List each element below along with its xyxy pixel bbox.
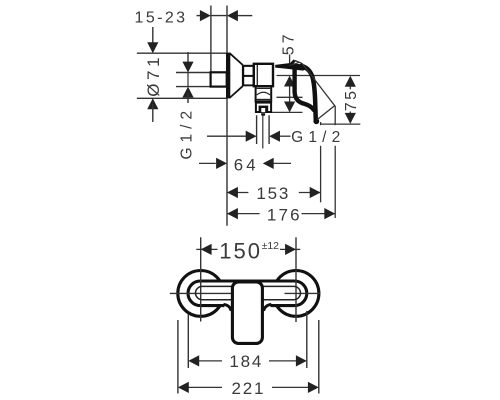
svg-text:150: 150	[219, 238, 262, 263]
outlet centerline	[262, 115, 264, 148]
arrowhead down G1/2 left	[182, 62, 193, 73]
extension line outlet level	[272, 111, 303, 113]
extension line bottom of escutcheon	[137, 97, 227, 99]
svg-text:75: 75	[343, 89, 360, 112]
arrowhead left 221	[178, 382, 189, 393]
svg-text:64: 64	[234, 155, 259, 174]
extension line 153 right	[320, 122, 322, 202]
handle wedge thin top edge	[295, 60, 303, 63]
handle face white fill	[295, 66, 315, 108]
outlet nub	[261, 113, 265, 116]
svg-text:G1/2: G1/2	[291, 129, 345, 146]
collar bottom bar	[255, 101, 272, 103]
dimension line O71 lower stem	[152, 104, 154, 122]
centerline vertical right	[295, 237, 297, 322]
arrowhead down 75	[345, 113, 356, 124]
svg-text:15-23: 15-23	[135, 9, 188, 26]
inner capsule line	[196, 286, 301, 299]
body capsule	[188, 281, 307, 306]
extension line 184 right	[306, 311, 308, 368]
arrowhead right 64	[216, 158, 227, 169]
handle tip	[313, 118, 319, 124]
knurled ring window upper	[244, 67, 253, 75]
dimension line G1/2 left lower stem	[187, 93, 189, 103]
escutcheon cone front edge	[242, 65, 244, 86]
collar line 2	[257, 100, 271, 102]
extension line G1/2 thread bottom	[176, 86, 210, 88]
arrowhead right onto wall line	[200, 10, 211, 21]
extension line 221 right	[318, 320, 320, 394]
outlet pipe right line	[268, 115, 270, 144]
arrowhead up 57	[284, 76, 295, 87]
arrowhead left 184	[188, 355, 199, 366]
handle front	[232, 282, 262, 343]
handle lever inner curve	[295, 68, 314, 111]
dimension line 176	[227, 213, 335, 215]
dimension line 184	[199, 360, 296, 362]
outlet inner square	[261, 108, 265, 112]
white patch under right fillet	[262, 303, 271, 308]
handle wedge white fill	[289, 60, 303, 66]
extension line handle top level	[277, 75, 361, 77]
outlet square	[259, 106, 269, 113]
arrowhead up O71	[147, 98, 158, 109]
arrowhead right 221	[308, 382, 319, 393]
arrowhead left 64	[263, 158, 274, 169]
arrowhead right 153	[310, 187, 321, 198]
arrowhead left onto inner wall line	[227, 10, 238, 21]
arrowhead right 184	[296, 355, 307, 366]
extension line 75 bottom	[321, 123, 360, 125]
svg-text:57: 57	[280, 32, 297, 56]
centerline horizontal left	[170, 292, 232, 294]
handle face edge line	[295, 69, 297, 75]
faucet square wall connector	[211, 72, 227, 86]
handle grip bar	[275, 63, 306, 70]
handle projection diagonal B	[317, 106, 335, 120]
dimension 150 leader stubs	[196, 248, 300, 250]
dimension line G1/2 bottom leader right	[280, 135, 291, 137]
svg-text:176: 176	[267, 205, 302, 224]
wall extension line B	[226, 6, 228, 226]
mixer body	[254, 64, 273, 86]
svg-text:±12: ±12	[262, 240, 280, 252]
outlet pipe left line	[256, 115, 258, 144]
handle projection diagonal A	[302, 64, 334, 106]
collar right edge	[270, 86, 272, 102]
svg-text:221: 221	[232, 379, 266, 398]
dimension line 221	[188, 386, 308, 388]
dimension 64 leader right	[273, 162, 291, 164]
fillet right	[264, 304, 272, 310]
dimension line 153	[227, 192, 321, 194]
arrowhead right G1/2 bottom	[246, 131, 257, 142]
extension line 221 left	[177, 320, 179, 394]
arrowhead left 150	[201, 244, 212, 255]
right escutcheon circle	[273, 271, 319, 317]
knurled ring window lower	[244, 77, 253, 85]
arrowhead down O71	[147, 42, 158, 53]
dimension line G1/2 left stem upper	[187, 52, 189, 66]
svg-text:Ø71: Ø71	[144, 54, 163, 97]
left escutcheon circle	[178, 271, 224, 317]
extension line top of escutcheon	[137, 52, 226, 54]
fillet left	[224, 304, 232, 310]
dimension line G1/2 left middle	[187, 73, 189, 87]
escutcheon cone bottom slant	[230, 86, 243, 98]
knurled ring black band	[243, 65, 254, 87]
arrowhead left G1/2 bottom	[269, 131, 280, 142]
dimension 64 leader left	[199, 162, 216, 164]
dimension line 15-23	[197, 15, 253, 17]
body inner line	[256, 65, 258, 85]
extension line 184 left	[187, 314, 189, 368]
svg-text:184: 184	[229, 352, 263, 371]
escutcheon back rim	[226, 53, 230, 99]
arrowhead left 176	[227, 208, 238, 219]
white patch under left fillet	[224, 303, 233, 308]
dimension 75 lower stem	[349, 112, 351, 114]
extension line 176 right	[334, 106, 336, 218]
arrowhead up 75	[345, 76, 356, 87]
centerline horizontal right	[285, 292, 321, 294]
handle wedge thick left edge	[288, 60, 294, 67]
arrowhead right 176	[324, 208, 335, 219]
outlet block	[256, 103, 271, 112]
collar top line	[257, 87, 271, 89]
svg-text:153: 153	[256, 184, 290, 203]
dimension line O71 upper stem	[152, 27, 154, 47]
collar left edge	[255, 86, 257, 102]
dimension 75 upper stem	[349, 86, 351, 89]
wall extension line A	[210, 6, 212, 73]
dimension line G1/2 bottom leader left	[207, 135, 246, 137]
arrowhead left 153	[227, 187, 238, 198]
dimension 57 mid stem	[289, 86, 291, 102]
svg-text:G1/2: G1/2	[178, 106, 195, 160]
dimension 57 upper stem	[289, 55, 291, 67]
extension line G1/2 thread top	[176, 72, 210, 74]
arrowhead right 150	[285, 244, 296, 255]
escutcheon cone top slant	[230, 53, 243, 65]
extension line handle base level	[277, 96, 303, 98]
handle wedge inner line	[289, 62, 299, 65]
collar arc	[257, 92, 270, 95]
handle lever outer curve	[302, 66, 316, 121]
arrowhead down 57	[284, 102, 295, 113]
arrowhead up G1/2 left	[182, 87, 193, 98]
collar line 1	[257, 98, 271, 100]
centerline vertical left	[200, 237, 202, 321]
